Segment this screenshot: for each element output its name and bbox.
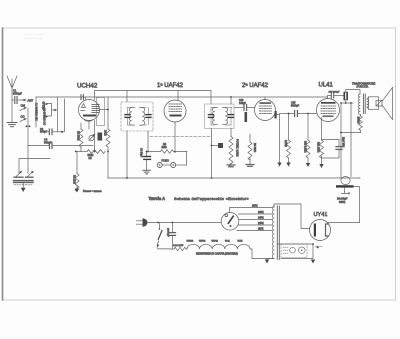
IFT1 primary winding <box>129 108 134 126</box>
wire IFT2 internal links <box>211 108 232 126</box>
svg-text:UL41: UL41 <box>319 83 334 89</box>
wire hexode stub <box>100 109 109 111</box>
wire UY41 cathode to B+ <box>328 222 360 224</box>
trimmer switch contacts S1c <box>45 103 52 118</box>
chassis arrow under gang <box>21 183 26 193</box>
chassis arrow under R3 <box>75 185 79 193</box>
resistor R2 horizontal <box>87 150 105 154</box>
svg-text:5000pF: 5000pF <box>291 104 300 107</box>
IFT2 primary capacitor <box>209 115 214 118</box>
wire between jacks <box>162 164 171 166</box>
IFT1 primary capacitor <box>125 115 130 118</box>
svg-text:25µF 25V.: 25µF 25V. <box>342 137 344 148</box>
svg-text:OM: OM <box>21 104 26 108</box>
variable capacitor C5 gang section b <box>26 171 34 178</box>
wire IFT2 bottom stubs <box>211 129 213 179</box>
page border frame <box>3 28 396 300</box>
svg-text:UCH42: UCH42 <box>187 241 194 243</box>
wire V3 top stub <box>264 97 266 100</box>
wire IFT1 cap link <box>128 108 132 126</box>
IF transformer T3 (2nd IF) box <box>205 104 235 129</box>
svg-text:R11 0,5MΩ: R11 0,5MΩ <box>304 141 306 153</box>
ground G3 under C9 <box>143 170 151 174</box>
arrow to chassis from can <box>342 188 351 195</box>
ballast resistor chain <box>187 244 250 249</box>
ground bar under R9 <box>246 165 254 167</box>
svg-text:R9 300Ω: R9 300Ω <box>253 143 255 152</box>
IFT1 secondary capacitor <box>146 115 151 118</box>
wire AVC down <box>76 151 77 153</box>
svg-text:C9 50µF: C9 50µF <box>140 148 143 158</box>
wire antenna down <box>11 100 13 122</box>
capacitor C15 <box>295 111 317 117</box>
svg-text:C.24 1ΩW: C.24 1ΩW <box>173 245 184 247</box>
tube V4 UL41 <box>317 99 340 122</box>
capacitor C2 <box>46 99 65 135</box>
wire anode bridge UCH42 <box>95 91 212 105</box>
wire UCH42 pins down <box>88 121 90 130</box>
switch S2 mains <box>157 223 170 249</box>
svg-text:FONO: FONO <box>162 159 170 163</box>
wire oscillator grid vertical <box>57 97 59 132</box>
svg-text:140V.: 140V. <box>258 218 264 220</box>
capacitor C3 <box>28 143 93 149</box>
svg-text:125V.: 125V. <box>258 223 264 225</box>
svg-text:Schema dell'apparecchio «Excel: Schema dell'apparecchio «Excelsior» <box>174 196 249 201</box>
wire IFT1 bottom stubs <box>126 131 128 178</box>
svg-text:0,5MΩ: 0,5MΩ <box>284 140 286 147</box>
chassis arrow V3 <box>277 163 281 167</box>
svg-text:D'USCITA: D'USCITA <box>357 84 369 88</box>
resistor R9 <box>248 134 252 164</box>
resistor R2v <box>106 125 110 152</box>
svg-text:1500Ω: 1500Ω <box>357 117 359 124</box>
loudspeaker LS1 <box>367 88 393 120</box>
capacitor C1 <box>12 97 22 104</box>
node ANT arrow <box>22 99 33 103</box>
wire bus right end down <box>354 187 360 223</box>
selector tap wires <box>230 208 273 231</box>
IFT2 secondary capacitor <box>229 115 234 118</box>
capacitor C13 grid coupling <box>234 105 255 111</box>
svg-text:2MΩ: 2MΩ <box>162 146 167 149</box>
svg-text:350V.: 350V. <box>339 200 346 204</box>
ground bus <box>108 177 360 179</box>
tube V5 UY41 rectifier <box>310 220 331 241</box>
svg-text:220V.: 220V. <box>252 206 258 208</box>
mains plug PL1 <box>137 218 148 227</box>
wire IFT1 primary stub <box>126 91 128 103</box>
tube V2 UAF42 first <box>164 100 186 122</box>
svg-text:R12 150Ω: R12 150Ω <box>317 142 319 153</box>
wire mains to selector <box>147 222 221 224</box>
pilot lamp LP1 <box>290 247 296 253</box>
node dots on grid bus <box>75 151 77 153</box>
tuning gang stator bar <box>14 181 34 183</box>
gang link dashed <box>14 184 32 186</box>
svg-text:160V.: 160V. <box>258 212 264 214</box>
wire jack to loop <box>176 164 187 166</box>
wire ballast to transformer bottom <box>250 249 274 259</box>
autotransformer T5 <box>272 206 279 260</box>
capacitor C12 dark <box>245 112 248 122</box>
svg-text:UY41: UY41 <box>238 241 244 243</box>
svg-text:110V.: 110V. <box>258 229 264 231</box>
pilot lamp dashes <box>283 247 289 253</box>
phono jack P1 <box>157 163 162 168</box>
svg-text:+: + <box>348 191 350 195</box>
resistor R3 <box>75 174 79 192</box>
capacitor C10 <box>212 143 224 148</box>
svg-text:... ....... .. ... ....: ... ....... .. ... .... <box>25 36 43 40</box>
IF transformer T2 (1st IF) box <box>121 102 153 131</box>
svg-text:R3 2MΩ: R3 2MΩ <box>73 175 76 184</box>
output transformer T4 <box>359 94 369 114</box>
wire IFT2 top stub to rail <box>230 97 232 104</box>
padder capacitor C7 <box>98 133 103 141</box>
resistor R15 <box>170 247 187 251</box>
svg-text:500pF: 500pF <box>44 140 52 144</box>
chassis arrow R12 <box>319 164 323 168</box>
electrolytic can bar <box>336 185 354 187</box>
wire tube V2 top stub <box>177 91 179 101</box>
wire trimmer tap arrow <box>52 109 58 111</box>
svg-text:UAF42: UAF42 <box>199 240 206 243</box>
wire screen feed vertical <box>107 97 109 125</box>
svg-text:Tavola A: Tavola A <box>149 196 166 201</box>
svg-text:ANT: ANT <box>28 99 34 103</box>
wire V2 cathode down <box>174 122 176 152</box>
oscillator coil box L3 <box>97 98 105 126</box>
trimmer C6 <box>89 134 95 141</box>
resistor R4 <box>147 150 188 154</box>
svg-text:C6 50pF: C6 50pF <box>42 102 44 111</box>
wire oscillator corner <box>19 159 50 174</box>
tube UCH42 V1 <box>79 100 100 122</box>
wire grid bus <box>76 151 88 153</box>
resistor R1 <box>79 123 83 152</box>
svg-text:R1 50kΩ: R1 50kΩ <box>77 131 80 141</box>
wire fono loop <box>186 152 188 166</box>
electrolytic can node <box>341 177 350 185</box>
svg-text:5000pF: 5000pF <box>13 92 22 96</box>
ground bar under R8 <box>227 165 235 167</box>
resistor R14 <box>359 114 363 132</box>
svg-text:20kΩ: 20kΩ <box>104 130 107 136</box>
tube V3 UAF42 second <box>255 100 277 121</box>
resistor R11 <box>306 114 310 164</box>
wire band switch common down <box>27 108 29 174</box>
switch S1b contact OC <box>20 115 27 122</box>
potentiometer R8 volume <box>229 137 233 167</box>
AVC dashed line <box>150 136 211 138</box>
capacitor C14 bypass loop <box>322 140 343 159</box>
capacitor C24 line filter <box>170 223 176 250</box>
top HT rail <box>36 96 328 98</box>
ground G1 <box>7 123 17 127</box>
switch S1a contact OM <box>20 104 27 111</box>
svg-text:RESISTENZA DI CADUTA (ZAVORRA): RESISTENZA DI CADUTA (ZAVORRA) <box>196 252 238 255</box>
wire transformer top to UY41 <box>274 204 310 229</box>
IFT2 secondary winding <box>223 108 228 125</box>
capacitor C16 <box>328 93 345 99</box>
wire L1 top to rail <box>35 97 37 127</box>
ground G4 under transformer <box>265 259 274 264</box>
svg-text:OC: OC <box>21 115 25 119</box>
svg-text:UAF42: UAF42 <box>212 240 219 243</box>
svg-text:POTENZ. 0,5MΩ: POTENZ. 0,5MΩ <box>236 139 238 157</box>
IFT1 secondary winding <box>140 108 145 126</box>
capacitor C17 electrolytic <box>344 90 360 103</box>
wire IFT1 sec link <box>143 108 149 126</box>
wire UL41 cathode <box>321 118 323 141</box>
node junction dots input <box>26 125 28 127</box>
wire detector line <box>280 113 295 115</box>
wire field coil feeds <box>340 103 342 178</box>
variable capacitor C4 gang section a <box>14 171 23 178</box>
svg-text:UY41: UY41 <box>314 212 328 218</box>
chassis arrow pilot <box>311 260 315 264</box>
svg-text:C16 100pF: C16 100pF <box>329 92 340 94</box>
wire R14 to field node <box>341 132 361 134</box>
antenna A1 <box>7 76 17 100</box>
svg-text:100pF: 100pF <box>239 102 246 105</box>
capacitor C9 electrolytic <box>144 152 151 170</box>
node grid UL41 <box>307 113 309 115</box>
svg-text:10000pF: 10000pF <box>167 228 169 237</box>
pilot lamp box <box>281 244 307 258</box>
IFT2 primary winding <box>212 108 217 125</box>
resistor R12 <box>320 140 324 164</box>
chassis arrow R10 <box>286 163 290 167</box>
phono jack P2 <box>171 163 176 168</box>
capacitor C8 osc grid <box>81 95 86 100</box>
wire B+ node stub <box>341 102 353 104</box>
wire pilot circuit <box>278 244 314 259</box>
voltage selector plug <box>221 213 239 231</box>
svg-text:UCH42: UCH42 <box>77 83 98 90</box>
pilot lamp LP2 <box>299 247 306 254</box>
resistor R10 <box>287 114 291 163</box>
chassis arrow R11 <box>306 163 310 167</box>
svg-text:Frecce = massa: Frecce = massa <box>83 189 102 193</box>
wire V3 anode down <box>277 115 280 163</box>
